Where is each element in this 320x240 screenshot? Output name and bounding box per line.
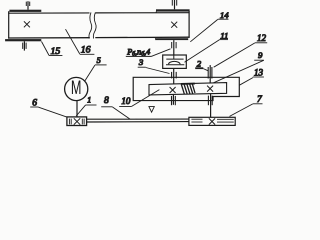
motor shaft 1 [76, 100, 78, 117]
svg-text:М: М [71, 77, 82, 98]
svg-text:3: 3 [138, 57, 144, 67]
coupling x-mark [74, 118, 80, 124]
svg-text:8: 8 [104, 96, 109, 106]
coupling 7 x-mark [209, 118, 215, 124]
motor coupling box 6 [67, 117, 87, 126]
svg-text:13: 13 [254, 68, 264, 78]
gear x-mark left [170, 87, 176, 93]
svg-text:1: 1 [87, 96, 91, 105]
hatched gear mesh block [181, 84, 195, 95]
label 13 [239, 68, 264, 86]
label 9 [214, 50, 264, 83]
label 7 [230, 95, 264, 117]
label 6 [30, 98, 66, 117]
bottom-left bearing block bar 15 [5, 39, 41, 41]
gear unit inner rectangle [149, 83, 227, 95]
coupling bars on left output shaft [172, 96, 176, 105]
top-left bearing block bar [9, 10, 41, 12]
input shaft from brake to reducer [173, 68, 175, 84]
transmission shaft 8 double line [87, 119, 189, 122]
lower right coupling 7 [189, 117, 235, 125]
svg-text:9: 9 [258, 50, 263, 60]
bottom-right bearing 14 [172, 40, 176, 55]
label 1 [76, 96, 96, 116]
top-left bearing [26, 1, 29, 10]
top-right bearing [172, 0, 176, 9]
label 14 [190, 10, 229, 42]
left output shaft stub below gear unit [172, 95, 174, 105]
label 2 [195, 58, 208, 70]
drum 16 body outline [8, 11, 189, 39]
coupling 7 inner shaft dashes [191, 119, 233, 122]
top-right bearing block bar [156, 9, 190, 11]
drum left shaft x-mark [24, 21, 30, 27]
right input shaft stub 12 [209, 65, 211, 83]
coupling inner bars [69, 119, 84, 125]
right output shaft down to lower coupling [210, 93, 212, 117]
gear x-mark right [207, 86, 213, 92]
svg-text:5: 5 [97, 56, 101, 65]
label 12 [214, 33, 268, 67]
motor 5 circle [65, 77, 88, 100]
label 16 [66, 29, 95, 55]
reducer housing 13 stepped outline [133, 77, 239, 100]
label P n 4 brake annotation [126, 48, 171, 58]
label 8 [101, 96, 130, 119]
svg-text:14: 14 [220, 10, 229, 20]
label 3 [138, 57, 170, 73]
bearing on right input shaft [208, 67, 212, 79]
oil level mark triangle [149, 107, 154, 113]
bearing on left input shaft [172, 72, 177, 79]
coupling bars on right output shaft [208, 96, 212, 106]
bottom-right bearing block bar [155, 38, 188, 40]
drum right shaft x-mark [171, 22, 177, 28]
svg-text:10: 10 [121, 96, 130, 106]
label 5 [85, 56, 107, 81]
brake coupling box 11 [163, 55, 187, 68]
brake symbol inside box [166, 55, 184, 65]
bottom-left bearing [23, 41, 26, 50]
label 10 [119, 90, 159, 107]
svg-text:11: 11 [220, 31, 228, 41]
svg-text:12: 12 [257, 33, 267, 43]
drum break lines [89, 12, 96, 38]
label 15 [42, 42, 63, 57]
svg-text:2: 2 [197, 58, 202, 68]
label 11 [185, 31, 229, 63]
